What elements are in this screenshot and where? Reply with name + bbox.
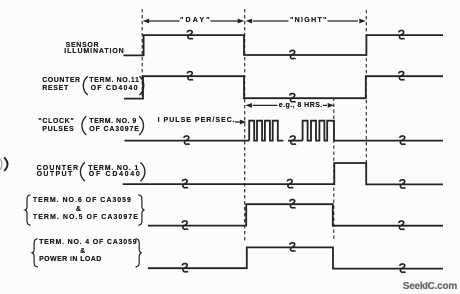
wire row2 COUNTER RESET waveform bbox=[124, 76, 443, 98]
break symbol row3 right bbox=[400, 136, 405, 145]
label TERM. NO.6 OF CA3059 bbox=[33, 197, 132, 204]
paren right of TERM NO.11 bbox=[139, 76, 143, 95]
label OF CA3097E bbox=[89, 126, 139, 133]
wire row5 TERM6/TERM5 waveform bbox=[148, 204, 443, 226]
break symbol row2 right bbox=[399, 72, 404, 81]
label 1 PULSE PER/SEC bbox=[158, 117, 236, 124]
break symbol row2 day bbox=[187, 72, 192, 81]
brace left row5 bbox=[25, 195, 31, 225]
paren right of TERM NO.1 bbox=[140, 162, 145, 181]
paren right of TERM NO.9 bbox=[139, 116, 143, 135]
wire row1 SENSOR ILLUMINATION waveform bbox=[124, 35, 444, 55]
label DAY bbox=[180, 17, 212, 24]
dashed time marker A (start of DAY) bbox=[141, 9, 143, 100]
break symbol row5 right bbox=[399, 221, 404, 230]
brace left row6 bbox=[32, 239, 38, 267]
label e.g. 8 HRS bbox=[279, 102, 323, 109]
label TERM. NO. 9 bbox=[89, 118, 137, 125]
label TERM. NO.5 OF CA3097E bbox=[33, 214, 139, 221]
stray figure-label paren at left edge bbox=[4, 157, 7, 171]
paren left of TERM NO.11 bbox=[83, 76, 87, 95]
break symbol row6 high bbox=[290, 243, 295, 252]
label TERM. NO. 1 bbox=[88, 165, 139, 172]
dashed time marker C (end of 8 HRS) bbox=[333, 98, 335, 242]
break symbol row4 mid bbox=[287, 179, 292, 188]
break symbol row4 left bbox=[182, 179, 187, 188]
break symbol row1 right bbox=[399, 30, 404, 39]
wire row3 pulse train 2 bbox=[303, 121, 443, 141]
watermark SeekIC.com bbox=[403, 283, 457, 290]
wire row3 gap baseline stub bbox=[288, 140, 303, 142]
e.g. 8 HRS dimension line with arrows bbox=[245, 103, 334, 108]
break symbol row2 night bbox=[290, 94, 295, 103]
label POWER IN LOAD bbox=[39, 256, 102, 263]
dashed time marker D (end of NIGHT) bbox=[365, 10, 367, 184]
label NIGHT bbox=[290, 17, 328, 24]
paren left of TERM NO.9 bbox=[82, 116, 86, 135]
arrow from 1 PULSE PER/SEC label bbox=[235, 120, 246, 125]
label ampersand row6 bbox=[80, 248, 86, 255]
DAY dimension line with arrows bbox=[143, 19, 245, 24]
brace right row5 bbox=[138, 195, 144, 225]
label CLOCK PULSES bbox=[38, 118, 74, 125]
NIGHT dimension line with arrows bbox=[246, 19, 366, 24]
label SENSOR ILLUMINATION bbox=[66, 42, 100, 49]
brace right row6 bbox=[136, 239, 142, 267]
label TERM. NO. 4 OF CA3059 bbox=[39, 239, 137, 246]
break symbol row3 left bbox=[184, 136, 189, 145]
label ampersand row5 bbox=[76, 206, 82, 213]
break symbol row1 night bbox=[290, 50, 295, 59]
wire row6 TERM4/POWER waveform bbox=[148, 247, 443, 268]
label OF CD4040 (2) bbox=[89, 171, 142, 178]
label TERM. NO.11 bbox=[89, 77, 139, 84]
label OF CD4040 bbox=[91, 85, 139, 92]
break symbol row4 right bbox=[400, 180, 405, 189]
label COUNTER OUTPUT bbox=[37, 165, 80, 172]
dashed time marker B (DAY/NIGHT boundary) bbox=[244, 9, 246, 242]
break symbol row5 left bbox=[182, 221, 187, 230]
label COUNTER RESET bbox=[42, 77, 80, 84]
faint partial paren at extreme left edge bbox=[0, 159, 1, 170]
wire row4 COUNTER OUTPUT waveform bbox=[123, 163, 443, 184]
break symbol row3 gap bbox=[290, 136, 295, 145]
wire row3 CLOCK PULSES baseline left bbox=[125, 140, 250, 142]
break symbol row6 right bbox=[400, 264, 405, 273]
break symbol row1 day bbox=[187, 30, 192, 39]
wire row3 pulse train 1 bbox=[249, 121, 283, 141]
break symbol row5 high bbox=[290, 200, 295, 209]
break symbol row6 left bbox=[182, 264, 187, 273]
paren left of TERM NO.1 bbox=[80, 162, 85, 181]
